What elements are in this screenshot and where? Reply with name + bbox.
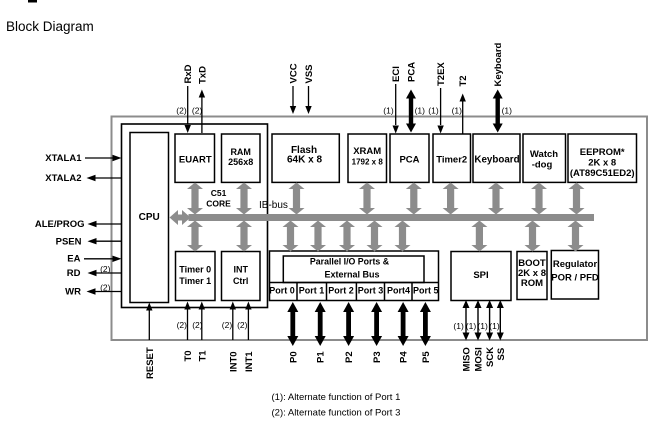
block INT Ctrl xyxy=(222,252,261,301)
svg-text:(AT89C51ED2): (AT89C51ED2) xyxy=(570,168,635,179)
svg-text:(2): (2) xyxy=(222,320,233,330)
svg-text:SCK: SCK xyxy=(485,347,496,367)
pin EA xyxy=(67,254,121,265)
pin SS xyxy=(489,300,506,361)
bus arrow ports 5 xyxy=(395,221,411,252)
bus arrow ports 3 xyxy=(339,221,355,252)
svg-text:(1): (1) xyxy=(453,321,464,331)
block Port 2 xyxy=(328,283,356,301)
block Keyboard xyxy=(473,134,520,182)
svg-text:T1: T1 xyxy=(197,350,208,362)
bus arrow RAM xyxy=(236,183,252,215)
port row divider line xyxy=(270,282,439,284)
block Watch-dog xyxy=(523,134,566,182)
svg-text:ECI: ECI xyxy=(391,66,402,82)
svg-text:Regulator: Regulator xyxy=(553,259,598,270)
svg-text:Port 2: Port 2 xyxy=(328,286,354,296)
bus arrow PCA xyxy=(406,183,422,215)
pin INT1 xyxy=(237,302,255,373)
svg-text:INT0: INT0 xyxy=(228,351,239,372)
svg-text:P4: P4 xyxy=(399,351,410,363)
svg-text:T0: T0 xyxy=(183,350,194,361)
svg-text:Block Diagram: Block Diagram xyxy=(6,19,94,34)
svg-text:(1): (1) xyxy=(466,321,477,331)
block XRAM 1792 x 8 xyxy=(348,134,387,182)
pin T1 xyxy=(192,302,208,362)
svg-text:RAM: RAM xyxy=(230,147,251,157)
svg-text:XTALA1: XTALA1 xyxy=(45,153,82,164)
pin RxD xyxy=(176,64,194,133)
pin P5 xyxy=(420,302,432,363)
label C51 CORE xyxy=(206,188,231,208)
block BOOT 2K x 8 ROM xyxy=(517,252,547,300)
svg-text:(2): (2) xyxy=(237,320,248,330)
svg-text:CORE: CORE xyxy=(206,198,231,208)
pin TxD xyxy=(192,66,208,133)
svg-text:EEPROM*: EEPROM* xyxy=(580,147,625,158)
bus arrow Watch-dog xyxy=(531,183,547,215)
svg-text:Keyboard: Keyboard xyxy=(493,42,504,86)
bus arrow Regulator xyxy=(568,221,584,252)
svg-text:Timer 1: Timer 1 xyxy=(179,276,211,286)
svg-text:(1): (1) xyxy=(452,106,463,116)
CPU to bus arrow xyxy=(170,210,191,225)
C51 core boundary box xyxy=(122,124,268,308)
pin RD xyxy=(67,264,122,279)
pin T0 xyxy=(177,302,194,362)
pin T2 xyxy=(452,75,470,133)
svg-text:EA: EA xyxy=(67,254,80,265)
pin XTALA1 xyxy=(45,153,121,164)
pin SCK xyxy=(477,300,496,367)
svg-text:Port 1: Port 1 xyxy=(299,286,325,296)
svg-text:RESET: RESET xyxy=(145,347,156,379)
svg-text:CPU: CPU xyxy=(139,212,160,223)
pin ALE/PROG xyxy=(35,219,122,230)
svg-text:(1): (1) xyxy=(489,321,500,331)
svg-text:P0: P0 xyxy=(288,351,299,363)
svg-text:XTALA2: XTALA2 xyxy=(45,173,81,184)
svg-text:(2): (2) xyxy=(192,320,203,330)
svg-text:(2): (2) xyxy=(100,264,111,274)
svg-text:INT1: INT1 xyxy=(244,351,255,372)
block CPU xyxy=(130,133,169,303)
pin XTALA2 xyxy=(45,173,121,184)
pin P4 xyxy=(398,302,410,363)
svg-text:T2EX: T2EX xyxy=(436,62,447,86)
svg-text:(2): (2) xyxy=(100,283,111,293)
bus arrow Timer 0/1 xyxy=(187,221,203,252)
svg-text:P1: P1 xyxy=(316,351,327,363)
bus arrow ports 4 xyxy=(367,221,383,252)
svg-text:-dog: -dog xyxy=(532,160,553,171)
bus arrow Flash xyxy=(289,183,305,215)
bus arrow BOOT xyxy=(525,221,541,252)
svg-text:VSS: VSS xyxy=(304,64,315,83)
svg-text:(2): (2) xyxy=(192,106,203,116)
pin VCC xyxy=(289,63,300,114)
bus arrow EUART xyxy=(187,183,203,215)
svg-text:Parallel I/O Ports &: Parallel I/O Ports & xyxy=(310,257,390,267)
bus arrow XRAM xyxy=(359,183,375,215)
pin PSEN xyxy=(56,237,122,248)
svg-text:EUART: EUART xyxy=(179,154,212,165)
block PCA xyxy=(390,134,429,182)
block Timer 0 / Timer 1 xyxy=(176,252,216,301)
svg-text:ROM: ROM xyxy=(521,278,543,289)
block Flash 64K x 8 xyxy=(272,134,339,182)
bus arrow ports 2 xyxy=(310,221,326,252)
svg-text:(1): (1) xyxy=(383,106,394,116)
svg-text:TxD: TxD xyxy=(197,66,208,84)
block EUART xyxy=(175,134,215,182)
svg-text:Port 0: Port 0 xyxy=(269,286,295,296)
bus arrow ports 1 xyxy=(283,221,299,252)
pin MOSI xyxy=(466,300,485,372)
block Port 3 xyxy=(358,283,385,301)
svg-text:256x8: 256x8 xyxy=(228,157,253,167)
svg-text:IB-bus: IB-bus xyxy=(259,200,288,211)
pin P1 xyxy=(315,302,327,363)
svg-text:2K x 8: 2K x 8 xyxy=(588,158,616,169)
block Port 1 xyxy=(299,283,327,301)
bus arrow EEPROM xyxy=(569,183,585,215)
svg-text:VCC: VCC xyxy=(289,63,300,83)
svg-text:SPI: SPI xyxy=(473,270,488,281)
svg-text:1792 x 8: 1792 x 8 xyxy=(352,158,384,167)
svg-text:INT: INT xyxy=(233,264,248,274)
outer boundary box xyxy=(112,117,648,341)
svg-text:P3: P3 xyxy=(372,351,383,363)
svg-text:C51: C51 xyxy=(211,188,227,198)
pin P0 xyxy=(287,302,299,363)
svg-text:Timer2: Timer2 xyxy=(436,154,467,165)
svg-text:P5: P5 xyxy=(421,351,432,363)
svg-text:PSEN: PSEN xyxy=(56,237,82,248)
svg-text:(2): (2) xyxy=(177,320,188,330)
svg-text:POR / PFD: POR / PFD xyxy=(551,273,599,284)
pin RESET xyxy=(145,303,156,380)
bus arrow Timer2 xyxy=(443,183,459,215)
block EEPROM 2K x 8 (AT89C51ED2) xyxy=(568,134,637,182)
block Parallel I/O Ports and External Bus xyxy=(270,251,439,301)
pin P3 xyxy=(371,302,383,363)
svg-text:ALE/PROG: ALE/PROG xyxy=(35,219,85,230)
svg-text:Timer 0: Timer 0 xyxy=(179,264,211,274)
pin Keyboard (thick) xyxy=(493,42,512,132)
pin T2EX xyxy=(428,62,447,134)
svg-text:Port 5: Port 5 xyxy=(413,286,439,296)
bus arrow INT Ctrl xyxy=(236,221,252,252)
block SPI xyxy=(451,252,511,301)
svg-text:Keyboard: Keyboard xyxy=(474,154,519,165)
svg-text:(2): (2) xyxy=(176,106,187,116)
pin MISO xyxy=(453,300,472,372)
svg-text:RxD: RxD xyxy=(183,64,194,83)
bus arrow Keyboard xyxy=(488,183,504,215)
svg-text:(1): (1) xyxy=(428,106,439,116)
svg-text:XRAM: XRAM xyxy=(353,146,381,157)
pin P2 xyxy=(343,302,355,363)
block Port 4 xyxy=(387,283,412,301)
bus arrow SPI xyxy=(471,221,487,252)
svg-text:SS: SS xyxy=(496,348,507,361)
svg-text:(1): (1) xyxy=(502,106,513,116)
svg-text:(2): Alternate function of Por: (2): Alternate function of Port 3 xyxy=(272,408,401,419)
svg-text:RD: RD xyxy=(67,268,81,279)
svg-text:Port4: Port4 xyxy=(387,286,410,296)
svg-text:Port 3: Port 3 xyxy=(358,286,384,296)
svg-text:External Bus: External Bus xyxy=(324,270,379,280)
svg-text:PCA: PCA xyxy=(407,62,418,82)
svg-text:MISO: MISO xyxy=(462,347,473,371)
svg-text:(1): (1) xyxy=(415,106,426,116)
block Timer2 xyxy=(433,134,471,182)
svg-text:64K x 8: 64K x 8 xyxy=(287,155,322,166)
svg-text:T2: T2 xyxy=(458,75,469,86)
svg-text:P2: P2 xyxy=(344,351,355,363)
svg-text:(1): Alternate function of Por: (1): Alternate function of Port 1 xyxy=(272,392,401,403)
IB-bus bar xyxy=(189,214,595,221)
block Regulator POR / PFD xyxy=(551,251,599,300)
block RAM 256x8 xyxy=(222,134,261,182)
pin INT0 xyxy=(222,302,239,373)
pin ECI xyxy=(383,66,402,133)
pin PCA (thick) xyxy=(406,62,425,133)
svg-text:WR: WR xyxy=(65,287,81,298)
svg-text:Ctrl: Ctrl xyxy=(233,276,249,286)
svg-text:(1): (1) xyxy=(477,321,488,331)
pin WR xyxy=(65,283,121,298)
block Port 0 xyxy=(269,283,297,301)
svg-text:PCA: PCA xyxy=(399,154,419,165)
svg-text:MOSI: MOSI xyxy=(474,347,485,371)
page title xyxy=(6,0,94,34)
pin VSS xyxy=(304,64,315,114)
